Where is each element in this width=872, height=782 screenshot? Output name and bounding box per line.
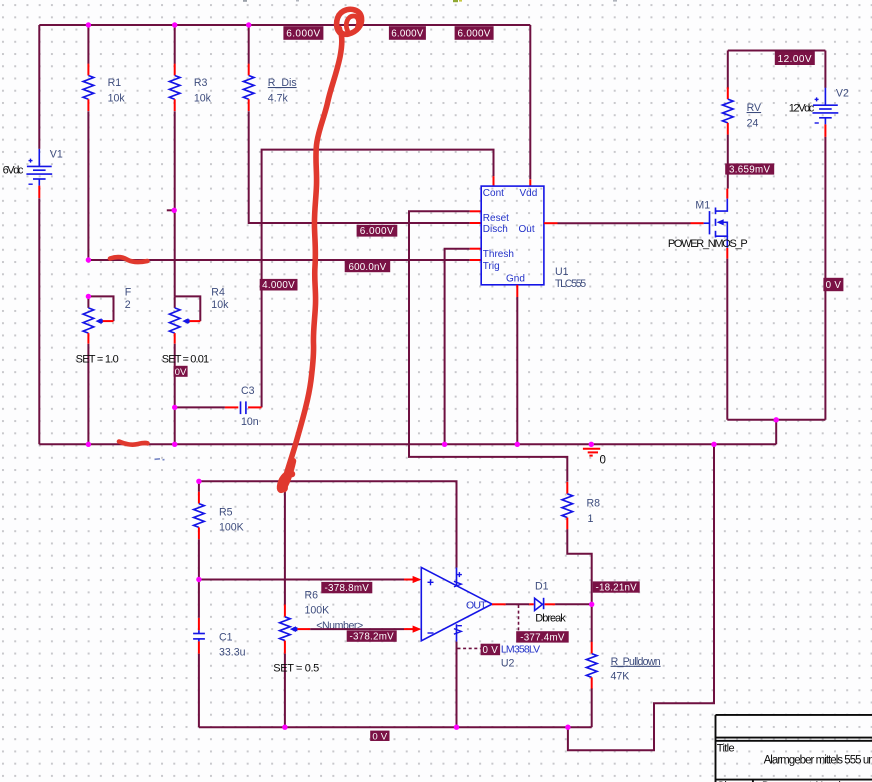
wire Reset path bbox=[409, 211, 567, 482]
svg-text:R5: R5 bbox=[219, 506, 233, 518]
resistor R_Dis bbox=[243, 25, 469, 223]
svg-text:M1: M1 bbox=[695, 200, 710, 212]
wire minus input bbox=[310, 628, 404, 630]
wire top supply rail bbox=[39, 24, 530, 26]
resistor R1 bbox=[83, 25, 125, 260]
dashed probe to -377.4mV bbox=[518, 605, 520, 631]
wire Thresh path bbox=[445, 249, 470, 445]
svg-text:4.7k: 4.7k bbox=[268, 92, 289, 104]
svg-text:R6: R6 bbox=[305, 589, 319, 601]
svg-text:Out: Out bbox=[519, 224, 535, 235]
wire ground rail bbox=[39, 443, 776, 445]
svg-text:12.00V: 12.00V bbox=[778, 54, 812, 65]
node tick at R3 bottom bbox=[167, 209, 175, 211]
svg-text:3.659mV: 3.659mV bbox=[729, 165, 770, 176]
bias voltage box -18.21nV bbox=[593, 581, 640, 592]
svg-text:1: 1 bbox=[588, 513, 594, 525]
op-amp U2 LM358LV bbox=[421, 567, 540, 669]
svg-text:R_Dis: R_Dis bbox=[268, 77, 297, 89]
wire plus input bbox=[199, 579, 404, 581]
svg-text:SET = 1.0: SET = 1.0 bbox=[76, 353, 119, 365]
svg-text:F: F bbox=[125, 286, 132, 298]
resistor R_Pulldown bbox=[586, 604, 660, 727]
wire Gnd of U1 bbox=[516, 285, 518, 297]
svg-text:Reset: Reset bbox=[483, 213, 509, 224]
junction dots bbox=[86, 22, 91, 27]
svg-text:6.000V: 6.000V bbox=[360, 226, 394, 237]
svg-text:47K: 47K bbox=[611, 670, 630, 682]
svg-text:V2: V2 bbox=[836, 87, 849, 99]
svg-text:Vdd: Vdd bbox=[520, 188, 538, 199]
bias voltage box 0 V (opamp V-) bbox=[481, 644, 501, 656]
bias voltage box 6.000V (rail 3) bbox=[455, 26, 494, 40]
bias voltage box -378.2mV bbox=[347, 630, 397, 641]
svg-text:R8: R8 bbox=[587, 498, 601, 510]
svg-text:Trig: Trig bbox=[483, 261, 500, 272]
svg-text:33.3u: 33.3u bbox=[219, 647, 246, 659]
svg-text:C3: C3 bbox=[241, 385, 255, 397]
red marker squiggle (hand drawn) bbox=[110, 9, 362, 490]
svg-text:POWER_NMOS_P: POWER_NMOS_P bbox=[668, 238, 748, 250]
wire bottom rail bbox=[199, 726, 592, 728]
transistor M1 POWER_NMOS_P bbox=[668, 189, 748, 420]
svg-text:R3: R3 bbox=[194, 77, 208, 89]
svg-text:12Vdc: 12Vdc bbox=[789, 103, 815, 115]
capacitor C1 bbox=[193, 618, 246, 727]
bias voltage box 0V (R4) bbox=[174, 366, 188, 377]
svg-text:Title: Title bbox=[717, 743, 735, 755]
bias voltage box 12.00V bbox=[775, 52, 815, 66]
svg-text:SET = 0.01: SET = 0.01 bbox=[162, 353, 209, 365]
svg-text:100K: 100K bbox=[219, 522, 244, 534]
wire Vdd stub bbox=[529, 25, 531, 179]
bias voltage box -377.4mV bbox=[516, 631, 569, 642]
svg-text:6.000V: 6.000V bbox=[391, 29, 424, 40]
potentiometer R4 bbox=[162, 286, 229, 444]
svg-text:-378.8mV: -378.8mV bbox=[325, 583, 370, 594]
wire op-amp V- down to bottom rail bbox=[456, 642, 458, 728]
svg-text:-377.4mV: -377.4mV bbox=[520, 632, 565, 643]
svg-text:0 V: 0 V bbox=[483, 645, 499, 656]
dashed probe to 0V bbox=[458, 647, 481, 649]
svg-text:6Vdc: 6Vdc bbox=[3, 164, 24, 176]
svg-text:Alarmgeber mittels 555 und: Alarmgeber mittels 555 und bbox=[764, 754, 872, 766]
wire Trig rail bbox=[88, 259, 469, 261]
svg-text:100K: 100K bbox=[305, 605, 330, 617]
svg-text:D1: D1 bbox=[535, 581, 549, 593]
svg-text:SET = 0.5: SET = 0.5 bbox=[273, 663, 319, 675]
diode D1 Dbreak bbox=[535, 581, 567, 625]
ground symbol 0 bbox=[583, 449, 606, 467]
tiny top-edge remnants bbox=[243, 0, 617, 2]
resistor R3 bbox=[169, 25, 211, 296]
resistor R8 bbox=[562, 482, 600, 604]
wire M1/V2 bottom joining bbox=[727, 419, 825, 421]
svg-text:0: 0 bbox=[600, 454, 606, 466]
battery V2 bbox=[789, 51, 849, 420]
svg-text:U2: U2 bbox=[501, 657, 515, 669]
battery V1 bbox=[26, 149, 52, 198]
wire lower top rail bbox=[199, 481, 457, 567]
bias voltage box 3.659mV bbox=[725, 163, 774, 174]
red marker dash (ground rail) bbox=[119, 442, 148, 445]
svg-text:10n: 10n bbox=[241, 416, 259, 428]
wire Cont path bbox=[262, 150, 494, 408]
bias voltage box 600.0nV (trig) bbox=[345, 260, 391, 272]
title block bbox=[716, 715, 872, 782]
svg-text:0 V: 0 V bbox=[372, 731, 387, 742]
svg-text:Dbreak: Dbreak bbox=[535, 612, 566, 624]
svg-text:U1: U1 bbox=[555, 266, 569, 278]
potentiometer R6 bbox=[273, 481, 363, 727]
wire Disch red stub bbox=[470, 222, 481, 224]
bias voltage box 6.000V (disch) bbox=[357, 225, 398, 237]
svg-text:24: 24 bbox=[747, 117, 759, 129]
svg-text:R1: R1 bbox=[108, 77, 122, 89]
svg-text:TLC555: TLC555 bbox=[555, 278, 586, 290]
bias voltage box 0 V (bottom rail) bbox=[370, 731, 389, 741]
svg-text:OUT: OUT bbox=[466, 600, 487, 612]
wire diode out to junction bbox=[555, 603, 592, 605]
capacitor C3 bbox=[175, 385, 262, 428]
svg-text:Cont: Cont bbox=[483, 188, 504, 199]
bias voltage box 4.000V bbox=[260, 279, 298, 291]
svg-text:10k: 10k bbox=[108, 92, 126, 104]
svg-text:-18.21nV: -18.21nV bbox=[596, 583, 638, 594]
svg-text:RV: RV bbox=[747, 102, 762, 114]
svg-text:10k: 10k bbox=[211, 299, 229, 311]
wire output bbox=[492, 603, 506, 605]
bias voltage box 6.000V (rail 2) bbox=[389, 26, 426, 40]
svg-text:600.0nV: 600.0nV bbox=[348, 262, 386, 273]
resistor R5 bbox=[194, 481, 244, 618]
svg-text:Disch: Disch bbox=[483, 224, 508, 235]
red marker dash (trig rail) bbox=[110, 257, 148, 262]
faint blue pen mark bbox=[155, 459, 165, 460]
svg-text:6.000V: 6.000V bbox=[286, 29, 320, 40]
svg-text:6.000V: 6.000V bbox=[458, 29, 491, 40]
wire right circuit top rail bbox=[728, 50, 826, 52]
svg-text:0 V: 0 V bbox=[826, 280, 842, 291]
wire Out to M1 gate bbox=[544, 222, 558, 224]
svg-text:10k: 10k bbox=[194, 92, 212, 104]
bias voltage box 0 V (V2 col) bbox=[823, 278, 843, 291]
svg-text:V1: V1 bbox=[50, 149, 63, 161]
bias voltage box -378.8mV bbox=[321, 582, 372, 593]
svg-text:Gnd: Gnd bbox=[506, 273, 525, 284]
svg-text:R4: R4 bbox=[211, 286, 225, 298]
svg-text:R_Pulldown: R_Pulldown bbox=[611, 656, 661, 668]
potentiometer F bbox=[76, 286, 132, 444]
svg-text:LM358LV: LM358LV bbox=[501, 643, 540, 655]
svg-text:-378.2mV: -378.2mV bbox=[349, 632, 394, 643]
svg-text:2: 2 bbox=[125, 299, 131, 311]
resistor RV bbox=[723, 51, 763, 189]
op-amp/timer U1 TLC555 bbox=[481, 186, 586, 290]
svg-text:0V: 0V bbox=[175, 367, 187, 378]
svg-text:C1: C1 bbox=[219, 631, 233, 643]
svg-text:Thresh: Thresh bbox=[483, 249, 514, 260]
wire ground rail to lower right loop bbox=[568, 444, 714, 750]
svg-text:4.000V: 4.000V bbox=[262, 280, 295, 291]
bias voltage box 6.000V (rail 1) bbox=[283, 26, 323, 40]
